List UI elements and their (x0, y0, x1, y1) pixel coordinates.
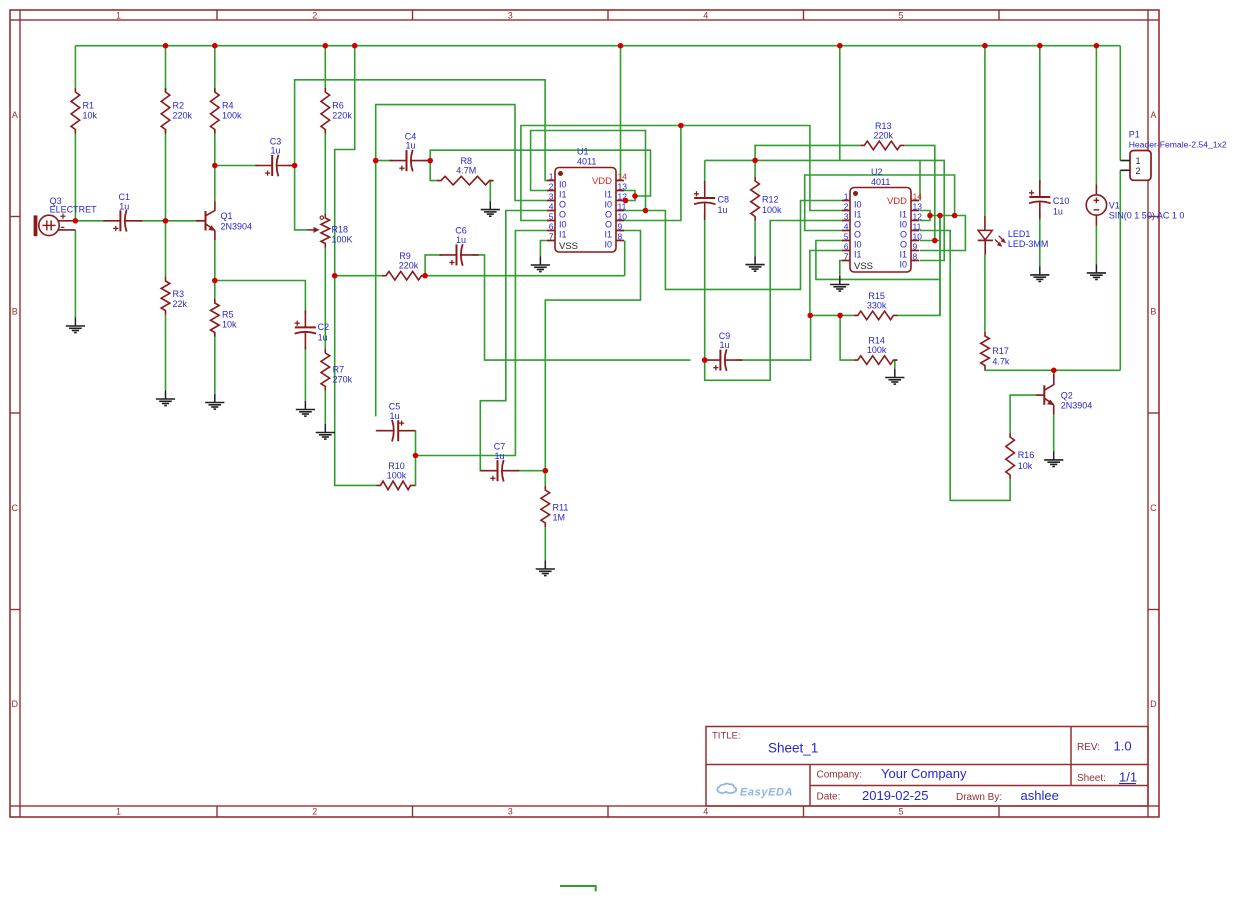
wire rail jog down to R9 left node and R10 left (335, 46, 377, 486)
wire C10 bottom to ground (1039, 213, 1041, 267)
svg-text:1: 1 (116, 10, 121, 20)
svg-text:Header-Female-2.54_1x2: Header-Female-2.54_1x2 (1129, 140, 1227, 150)
ground V1 (1087, 264, 1106, 279)
capacitor C6 (440, 226, 479, 266)
capacitor C9 (703, 331, 742, 371)
svg-text:1: 1 (549, 172, 554, 182)
svg-text:10: 10 (913, 232, 923, 242)
svg-text:O: O (854, 220, 861, 230)
svg-text:220k: 220k (332, 111, 352, 121)
svg-text:R8: R8 (461, 156, 473, 166)
svg-text:B: B (12, 306, 18, 316)
svg-text:SIN(0 1 50) AC 1 0: SIN(0 1 50) AC 1 0 (1109, 211, 1185, 221)
svg-text:R1: R1 (83, 101, 95, 111)
junction dot C4 right (427, 158, 433, 164)
svg-text:5: 5 (549, 212, 554, 222)
ground R11 (536, 561, 555, 576)
svg-text:R15: R15 (868, 291, 885, 301)
wire U2 pin10 branch down to R15 right (939, 216, 941, 316)
resistor R7 (321, 349, 353, 391)
ground R7 (316, 424, 335, 439)
svg-text:13: 13 (913, 202, 923, 212)
wire U1 pin5 feed / pin10 tie line to U2 pin2 (521, 126, 844, 221)
wire U1 pin4 to C7 left (480, 211, 547, 471)
wire U1 pin14 from rail (620, 46, 622, 181)
svg-text:7: 7 (844, 252, 849, 262)
wire U2 pin5 to pin10 branch (816, 241, 940, 280)
resistor R2 (161, 88, 192, 134)
capacitor C3 (255, 136, 294, 176)
svg-text:5: 5 (844, 232, 849, 242)
svg-text:1/1: 1/1 (1119, 769, 1137, 784)
svg-text:4: 4 (844, 222, 849, 232)
resistor R13 (860, 121, 904, 150)
junction dot U1 pin10 tie (678, 123, 684, 129)
wire C10 from rail (1039, 46, 1041, 183)
svg-text:100k: 100k (762, 205, 782, 215)
svg-text:ELECTRET: ELECTRET (50, 204, 98, 214)
svg-text:U1: U1 (577, 147, 589, 157)
wire R13 right to U2 pin10 (904, 145, 935, 240)
svg-text:12: 12 (913, 212, 923, 222)
svg-text:A: A (12, 110, 18, 120)
svg-text:4: 4 (549, 202, 554, 212)
svg-text:VSS: VSS (559, 241, 578, 252)
wire V1 from rail (1095, 46, 1097, 185)
ground U1 VSS (531, 257, 550, 272)
svg-text:R7: R7 (333, 365, 345, 375)
junction dot mic node (73, 218, 79, 224)
svg-text:I1: I1 (854, 210, 862, 220)
wire R6 column rail to R18 (324, 46, 326, 214)
wire U1 pin2 feed from pin11 tie line (531, 131, 646, 211)
svg-text:9: 9 (618, 222, 623, 232)
wire Q1 collector from C3 node (214, 166, 216, 202)
svg-text:R9: R9 (399, 251, 411, 261)
svg-text:3: 3 (844, 212, 849, 222)
svg-text:1: 1 (1135, 156, 1140, 166)
svg-text:22k: 22k (173, 299, 188, 309)
svg-text:4: 4 (703, 806, 708, 816)
wire R11 node to R11 (544, 471, 546, 486)
svg-text:LED1: LED1 (1008, 229, 1031, 239)
capacitor C2 (295, 310, 330, 349)
resistor R5 (211, 299, 238, 337)
junction dot U2 tie at pin13/12 (927, 213, 933, 219)
ground R14 (885, 369, 904, 384)
wire R9 right to U1 pin8 (426, 241, 625, 276)
svg-text:1.0: 1.0 (1114, 739, 1132, 754)
junction dot U1 pin12 stub (623, 198, 629, 204)
svg-text:1u: 1u (405, 141, 415, 151)
capacitor C1 (103, 192, 142, 232)
wire P1 pin2 drop to Q2 collector row (1119, 170, 1121, 370)
junction dot Q2 collector node (1051, 368, 1057, 374)
wire Q2 emitter to ground (1053, 415, 1055, 452)
junction dot R9 left (332, 273, 338, 279)
wire R9 left node to R9 (335, 275, 382, 277)
svg-text:O: O (605, 210, 612, 220)
svg-text:R5: R5 (222, 310, 234, 320)
svg-text:Sheet_1: Sheet_1 (768, 741, 818, 756)
svg-text:100k: 100k (867, 345, 887, 355)
wire C4 node down to R8 (430, 161, 437, 181)
wire R1 column from rail to mic node (74, 46, 76, 221)
svg-text:5: 5 (898, 10, 903, 20)
ground R8 (481, 201, 500, 216)
svg-text:R4: R4 (222, 101, 234, 111)
wire C8 bottom to C9 node (704, 214, 706, 360)
EasyEDA logo (717, 784, 793, 799)
svg-text:100k: 100k (222, 111, 242, 121)
svg-text:Q1: Q1 (221, 211, 233, 221)
wire R11 to ground (544, 527, 546, 561)
wire U2 pin13 to pin12 U-turn (920, 211, 931, 221)
svg-text:P1: P1 (1129, 130, 1140, 140)
svg-text:Sheet:: Sheet: (1077, 773, 1106, 784)
wire rail end down to P1 pin1 (1119, 46, 1121, 161)
svg-text:4.7M: 4.7M (456, 166, 476, 176)
svg-text:6: 6 (549, 222, 554, 232)
wire R18 bottom to R7 (324, 248, 326, 350)
junction dot C3 right node (292, 163, 298, 169)
wire R12 top from line (754, 160, 756, 177)
svg-text:2N3904: 2N3904 (1061, 401, 1093, 411)
svg-text:R18: R18 (332, 225, 349, 235)
svg-text:I0: I0 (559, 220, 567, 230)
wire C5 right to R10 node (414, 431, 415, 456)
svg-text:I0: I0 (854, 240, 862, 250)
potentiometer R18 (307, 214, 353, 248)
capacitor C5 (376, 402, 415, 442)
wire R16 top to Q2 base (1010, 395, 1036, 433)
wire R13 left from line (755, 145, 860, 160)
svg-text:O: O (900, 240, 907, 250)
resistor R1 (71, 88, 97, 134)
junction dot C5 R10 node (413, 453, 419, 459)
header P1 (1120, 130, 1227, 181)
resistor R11 (541, 486, 568, 527)
wire C5 left column up to U1 pin3 (376, 105, 549, 417)
svg-text:1u: 1u (494, 451, 504, 461)
svg-text:100k: 100k (387, 470, 407, 480)
wire U1 pin9 to C7 right / R11 node (545, 231, 640, 471)
wire C3 row from R4 node to C3 to C3 node (215, 165, 295, 167)
ground Q2 emitter (1044, 451, 1063, 466)
svg-text:R6: R6 (332, 101, 344, 111)
wire R12 bottom to ground (754, 221, 756, 257)
wire U2 pin14 drop (919, 160, 921, 200)
svg-text:I1: I1 (604, 190, 612, 200)
wire Q1 emitter to emitter node (214, 240, 216, 281)
wire U1 pin6 to C5/R10 node (416, 231, 548, 456)
svg-text:2: 2 (1135, 166, 1140, 176)
wire U1 pin7 to ground (540, 241, 547, 257)
svg-text:R12: R12 (762, 195, 779, 205)
svg-text:C10: C10 (1053, 196, 1070, 206)
wire U2 pin7 to ground (840, 261, 844, 277)
svg-text:I1: I1 (604, 230, 612, 240)
junction dot C4 left (373, 158, 379, 164)
svg-text:Q2: Q2 (1061, 391, 1073, 401)
svg-text:4.7k: 4.7k (992, 357, 1010, 367)
svg-text:I1: I1 (854, 250, 862, 260)
svg-text:U2: U2 (871, 167, 883, 177)
wire R15 right up to pin10 line (898, 216, 941, 316)
svg-text:TITLE:: TITLE: (712, 731, 741, 742)
wire U2 pin11 to R16 bottom (920, 231, 1011, 501)
junction dot C7 R11 node (543, 468, 549, 474)
wire C8/R12/R13 line to U2 pin14 and pin8 (705, 160, 945, 260)
svg-text:I0: I0 (899, 260, 907, 270)
resistor R4 (211, 88, 243, 134)
wire C7 right to node (516, 470, 545, 472)
junction dot R9 right C6 (422, 273, 428, 279)
svg-text:C: C (12, 503, 19, 513)
svg-text:1u: 1u (719, 340, 729, 350)
svg-text:14: 14 (618, 172, 628, 182)
svg-text:6: 6 (844, 242, 849, 252)
wire R9 right node up to C6 (425, 255, 442, 276)
junction dot U2 tie branch up (952, 213, 958, 219)
svg-text:R16: R16 (1018, 450, 1035, 460)
svg-text:R10: R10 (388, 461, 405, 471)
svg-text:4: 4 (703, 10, 708, 20)
svg-text:11: 11 (913, 222, 922, 232)
junction dots on VDD rail (163, 43, 1099, 49)
svg-text:3: 3 (508, 806, 513, 816)
svg-text:1M: 1M (553, 513, 566, 523)
wire C9 left lead (705, 359, 707, 361)
svg-text:1u: 1u (456, 235, 466, 245)
resistor R12 (751, 177, 782, 221)
svg-text:V1: V1 (1109, 201, 1120, 211)
svg-text:1u: 1u (119, 201, 129, 211)
svg-text:Date:: Date: (817, 792, 841, 803)
junction dot R12 R13 node (752, 158, 758, 164)
capacitor C7 (481, 442, 520, 482)
svg-text:C1: C1 (119, 192, 131, 202)
svg-text:10: 10 (618, 212, 628, 222)
svg-text:I0: I0 (899, 220, 907, 230)
svg-text:A: A (1150, 110, 1156, 120)
svg-text:1: 1 (116, 806, 121, 816)
wire C4 row from C5 column to C4 (376, 160, 393, 162)
svg-text:2: 2 (549, 182, 554, 192)
svg-text:3: 3 (508, 10, 513, 20)
wire R17 bottom to Q2 collector row (985, 369, 1120, 372)
wire rail drop to C8 line (839, 46, 841, 161)
wire U2 pin6 to R15 node (810, 251, 844, 316)
svg-text:100K: 100K (332, 235, 353, 245)
wire C6 right to C9 row (473, 255, 691, 360)
resistor R3 (161, 277, 187, 315)
svg-text:C8: C8 (718, 195, 730, 205)
capacitor C4 (390, 131, 429, 171)
ground U2 VSS (830, 276, 849, 291)
svg-text:2N3904: 2N3904 (221, 222, 253, 232)
resistor R16 (1006, 433, 1034, 479)
wire C2 bottom to ground (304, 347, 306, 401)
svg-text:O: O (559, 200, 566, 210)
svg-text:2: 2 (312, 806, 317, 816)
svg-text:I1: I1 (559, 230, 567, 240)
svg-text:9: 9 (913, 242, 918, 252)
svg-text:4011: 4011 (871, 177, 890, 187)
svg-text:330k: 330k (867, 300, 887, 310)
junction dot U2 pin10 R13 (932, 238, 938, 244)
capacitor C8 (694, 181, 729, 220)
svg-text:1u: 1u (318, 333, 328, 343)
wire mic minus to ground (74, 230, 76, 318)
wire LED column from rail (984, 46, 986, 216)
junction dot U1 tie branch (632, 193, 638, 199)
wire U2 tie row 13/12 to pin9 (920, 216, 966, 251)
svg-text:220k: 220k (874, 130, 894, 140)
svg-text:1u: 1u (270, 146, 280, 156)
junction dot R15 left node (807, 313, 813, 319)
svg-text:10k: 10k (222, 320, 237, 330)
voltage source V1 (1086, 185, 1184, 226)
svg-text:Company:: Company: (817, 770, 863, 781)
wire R15 row: node to R15 (810, 314, 854, 316)
ground R12 (746, 256, 765, 271)
ground R3 (156, 391, 175, 406)
svg-text:7: 7 (549, 232, 554, 242)
svg-text:8: 8 (913, 252, 918, 262)
wire VDD top rail (75, 45, 1120, 47)
svg-text:13: 13 (618, 182, 628, 192)
svg-text:O: O (559, 210, 566, 220)
svg-text:Your Company: Your Company (881, 766, 967, 781)
wire C9 right up to R15 node (736, 315, 810, 360)
svg-text:10k: 10k (1018, 461, 1033, 471)
svg-text:O: O (605, 220, 612, 230)
svg-text:2: 2 (312, 10, 317, 20)
svg-text:R13: R13 (875, 121, 892, 131)
wire R5 to ground (214, 337, 216, 395)
svg-text:5: 5 (898, 806, 903, 816)
LED LED1 (978, 216, 1049, 255)
wire R4 column rail to C3 node (214, 46, 216, 166)
wire LED cathode to R17 (984, 255, 986, 332)
svg-text:LED-3MM: LED-3MM (1008, 239, 1049, 249)
wire R14 right to ground (895, 360, 898, 369)
svg-text:I1: I1 (559, 190, 567, 200)
svg-text:1u: 1u (389, 411, 399, 421)
wire C9 node down around to U2 pin3 (705, 221, 844, 381)
wire C5 left lead (376, 430, 385, 432)
wire Q2 collector node (1053, 370, 1055, 374)
svg-text:I0: I0 (604, 200, 612, 210)
svg-text:R17: R17 (992, 346, 1009, 356)
title block (706, 727, 1148, 807)
wire C4 right node (422, 160, 430, 162)
svg-text:D: D (12, 699, 19, 709)
svg-text:I0: I0 (559, 180, 567, 190)
resistor R10 (377, 461, 415, 490)
svg-text:R3: R3 (173, 289, 185, 299)
wire R8 right to ground (490, 181, 493, 201)
IC U1 4011 (547, 147, 627, 253)
svg-text:O: O (854, 230, 861, 240)
svg-text:10k: 10k (83, 111, 98, 121)
wire U2 pin10 out (920, 240, 941, 242)
wire emitter node to C2 column (215, 281, 306, 314)
svg-text:EasyEDA: EasyEDA (740, 787, 793, 799)
svg-text:220k: 220k (399, 261, 419, 271)
ground R5 (205, 394, 224, 409)
wire U1 pin11 to U2 pin1 via drop (624, 201, 844, 290)
wire U2 pin4 up to tie line (805, 175, 955, 231)
junction dot U2 tie branch down (937, 213, 943, 219)
svg-text:8: 8 (618, 232, 623, 242)
svg-text:I1: I1 (899, 250, 907, 260)
svg-text:I1: I1 (899, 210, 907, 220)
wire C1 node row: dot to C1 to Q1 base (75, 220, 199, 222)
electret microphone Q3 (34, 196, 98, 236)
svg-text:R2: R2 (173, 101, 185, 111)
svg-text:2: 2 (844, 202, 849, 212)
svg-text:R14: R14 (868, 336, 885, 346)
wire stray segment bottom (560, 886, 596, 891)
svg-text:I0: I0 (604, 240, 612, 250)
junction dot R14 connector (837, 313, 843, 319)
wire C8 top from line (704, 160, 706, 184)
svg-text:D: D (1150, 699, 1157, 709)
wire C4 node up over to U1 pins12/13 tie (430, 150, 650, 196)
IC U2 4011 (842, 167, 922, 272)
svg-text:VDD: VDD (887, 196, 907, 207)
ground mic (66, 318, 85, 333)
wire C3 node down to R18 wiper (295, 166, 307, 230)
svg-text:ashlee: ashlee (1021, 788, 1059, 803)
svg-text:4011: 4011 (577, 157, 596, 167)
resistor R14 (854, 336, 898, 365)
svg-text:O: O (900, 230, 907, 240)
svg-text:B: B (1150, 306, 1156, 316)
svg-text:C: C (1150, 503, 1157, 513)
svg-text:REV:: REV: (1077, 742, 1100, 753)
svg-text:VDD: VDD (592, 176, 612, 187)
junction dot U1 pin11 feed (643, 208, 649, 214)
wire emitter node to R5 (214, 281, 216, 300)
wire C3 node up and over to U1 pin1 (295, 80, 549, 181)
ground C2 (296, 401, 315, 416)
resistor R17 (981, 332, 1010, 370)
capacitor C10 (1029, 180, 1069, 219)
wire R14 connector from R15 row (840, 315, 854, 360)
svg-text:1u: 1u (1053, 207, 1063, 217)
svg-text:I0: I0 (854, 200, 862, 210)
wire V1 bottom to ground (1095, 226, 1097, 265)
resistor R6 (321, 88, 352, 134)
wire U1 pin10 up to tie line (624, 126, 681, 221)
wire R3 to ground (165, 315, 167, 391)
wire U1 pin13 to pin12 U-turn (621, 191, 636, 201)
resistor R9 (382, 251, 426, 280)
svg-text:Drawn By:: Drawn By: (956, 792, 1002, 803)
svg-text:3: 3 (549, 192, 554, 202)
svg-text:1: 1 (844, 192, 849, 202)
ground C10 (1030, 266, 1049, 281)
svg-text:2019-02-25: 2019-02-25 (862, 788, 929, 803)
junction dot C9 left node (702, 357, 708, 363)
junction dot R4 C3 node (212, 163, 218, 169)
svg-text:220k: 220k (173, 111, 193, 121)
svg-text:14: 14 (913, 192, 923, 202)
svg-text:VSS: VSS (854, 261, 873, 272)
